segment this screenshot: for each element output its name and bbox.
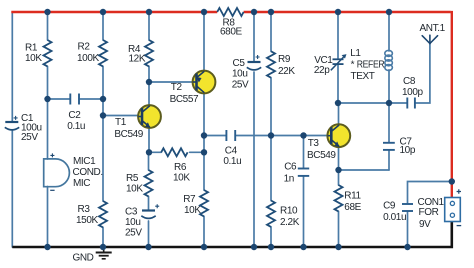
inductor L1 [385,50,393,70]
wire R5 bottom to C3 [148,196,150,210]
resistor R10 2.2K [267,201,275,227]
node C2 left [44,96,50,102]
svg-text:10u: 10u [232,69,248,80]
svg-text:0.1u: 0.1u [67,121,85,132]
node rail R9 [268,9,274,15]
capacitor C4 0.1u [226,130,235,141]
node gnd R11 [335,244,341,250]
svg-text:0.1u: 0.1u [223,156,241,167]
svg-text:25V: 25V [125,227,142,238]
svg-text:BC557: BC557 [170,94,199,105]
wire T3 emitter down to R11 [338,146,340,185]
capacitor C2 0.1u [70,94,79,105]
wire R4 bottom to T1 collector [148,66,150,106]
wire C6 bottom to ground [303,177,305,247]
svg-text:C6: C6 [284,162,297,173]
svg-text:BC549: BC549 [114,129,143,140]
wire R6 row right [190,151,204,153]
node R9 R10 [268,132,274,138]
node T1 base [100,112,106,118]
svg-text:BC549: BC549 [307,150,336,161]
node gnd R3 [100,244,106,250]
wire R9 column top [270,12,272,51]
wire R11 bottom to ground [338,211,340,247]
capacitor C8 100p [407,98,415,109]
node T2 base R4 [146,79,152,85]
wire VC1 bottom to tank node [337,65,339,103]
svg-text:MIC: MIC [73,178,90,189]
svg-text:C9: C9 [383,201,396,212]
wire VC1 column top [337,12,339,58]
resistor R11 68E [335,185,343,211]
wire T1 base row [103,115,139,117]
wire C5 column top [253,12,255,61]
resistor R3 150K [99,201,107,227]
svg-text:22K: 22K [278,66,295,77]
svg-text:R3: R3 [78,204,91,215]
svg-text:R11: R11 [344,191,361,202]
svg-text:*: * [351,59,355,70]
wire L1 bottom to tank node [388,70,390,103]
svg-text:C8: C8 [403,76,416,87]
node C4 T2 emitter [201,132,207,138]
transistor T1 BC549 NPN [138,105,161,128]
capacitor C6 1n [298,169,309,176]
node gnd C9 [404,244,410,250]
wire R10 bottom to ground [270,227,272,247]
wire C2 row left [48,98,70,100]
resistor R5 10K [145,170,153,196]
wire R3 bottom to ground [102,227,104,247]
node gnd R7 [201,244,207,250]
antenna ANT.1 [422,35,437,43]
svg-text:100K: 100K [77,53,99,64]
resistor R8 680E [217,8,243,16]
wire C7 column top [388,103,390,142]
wire R2 bottom through C2 node and T1 base node to R3 [102,66,104,201]
wire T2 collector from rail [203,12,205,72]
ground rail (black) [12,221,452,247]
capacitor C1 100u electrolytic [5,116,19,130]
transistor T3 BC549 NPN [327,124,350,147]
svg-text:GND: GND [72,253,93,264]
svg-text:T1: T1 [115,117,127,128]
resistor R2 100K [99,40,107,66]
node rail C5 [251,9,257,15]
wire R9 bottom through C4 node to R10 [270,78,272,201]
svg-text:10K: 10K [25,53,42,64]
svg-text:R7: R7 [183,194,196,205]
svg-text:C3: C3 [125,207,138,218]
node gnd R10 [268,244,274,250]
svg-text:2.2K: 2.2K [280,217,300,228]
svg-text:COND.: COND. [73,167,103,178]
wire R4 column top [148,12,150,40]
svg-text:R6: R6 [174,162,187,173]
wire T1 emitter to R6 node [148,127,150,152]
wire C5 bottom to ground [253,72,255,247]
mic minus sign [50,189,54,191]
svg-text:ANT.1: ANT.1 [420,23,446,34]
variable capacitor VC1 22p [331,54,346,70]
wire C7 bottom to emitter row [388,151,390,170]
svg-text:T2: T2 [171,82,183,93]
svg-text:68E: 68E [344,202,361,213]
wire C4 row right to T3 base [236,135,328,137]
mic plus sign [50,153,54,157]
node rail VC1 [335,9,341,15]
wire left border column (C1 column) top [11,12,13,121]
wire left border column (C1 column) bottom [11,131,13,247]
capacitor C3 10u electrolytic [141,204,159,218]
node tank VC1 [335,100,341,106]
svg-text:680E: 680E [220,27,242,38]
node battery plus [449,178,455,184]
node T1 emitter R6 [146,149,152,155]
node rail R4 [146,9,152,15]
resistor R7 10K [200,190,208,216]
svg-text:R1: R1 [25,43,38,54]
wire R1 bottom to C2 node [47,66,49,99]
svg-text:R2: R2 [78,42,91,53]
svg-text:22p: 22p [314,65,330,76]
svg-text:100p: 100p [402,87,423,98]
node gnd C3 [145,244,151,250]
wire T3 emitter row [339,169,390,171]
node gnd C5 [251,244,257,250]
svg-text:REFER: REFER [357,59,385,70]
wire tank row L1 to C8 [389,102,406,104]
capacitor C7 10p [383,143,395,150]
node rail R2 [100,9,106,15]
transistor T2 BC557 PNP [193,71,216,94]
svg-text:10K: 10K [126,184,143,195]
svg-text:1n: 1n [284,174,294,185]
svg-text:R10: R10 [280,206,298,217]
svg-text:R9: R9 [278,54,291,65]
wire R6 node down to R5 [148,152,150,170]
svg-text:10K: 10K [173,173,190,184]
svg-text:C2: C2 [68,110,81,121]
wire T2 emitter down through C4 node and R6 node to R7 [203,93,205,191]
wire tank node to T3 collector [338,103,340,125]
wire C8 to antenna [416,44,430,104]
svg-text:TEXT: TEXT [351,71,375,82]
svg-text:0.01u: 0.01u [383,212,406,223]
wire T2 base row [149,81,194,83]
wire R7 bottom to ground [203,216,205,247]
ground symbol GND [96,248,112,259]
node T3 emitter [335,167,341,173]
node C6 base [300,132,306,138]
wire R2 column top [102,12,104,40]
node gnd mic [44,244,50,250]
wire C9 top bend to CON1 plus node [408,182,452,204]
svg-text:L1: L1 [350,48,361,59]
svg-text:C4: C4 [225,146,238,157]
wire R6 row left [149,151,161,153]
svg-text:150K: 150K [76,215,98,226]
svg-text:12K: 12K [129,54,146,65]
wire C3 bottom to ground [148,221,150,247]
wire mic bottom to ground [47,187,49,248]
wire L1 column top [388,12,390,51]
node rail T2 [201,9,207,15]
svg-text:10K: 10K [184,205,201,216]
wire C2 row right [80,98,103,100]
capacitor C5 10u electrolytic [247,55,261,70]
svg-text:25V: 25V [21,132,38,143]
wire tank row VC1 to L1 [338,102,389,104]
resistor R6 10K [161,148,187,156]
microphone MIC1 condenser [44,159,70,187]
node R6 R7 [201,149,207,155]
svg-text:R5: R5 [126,173,139,184]
wire C4 row left [204,135,225,137]
node C2 right [100,96,106,102]
svg-text:9V: 9V [419,219,431,230]
svg-text:T3: T3 [308,138,320,149]
svg-text:10p: 10p [400,145,416,156]
connector CON1 [445,189,462,225]
power rail +9V (red) [11,11,452,198]
resistor R4 12K [145,40,153,66]
node tank L1 [386,100,392,106]
resistor R9 22K [267,51,275,77]
capacitor C9 0.01u [402,204,413,211]
svg-text:FOR: FOR [419,207,439,218]
resistor R1 10K [44,40,52,66]
svg-text:25V: 25V [232,80,249,91]
svg-text:MIC1: MIC1 [73,156,96,167]
wire mic top [47,99,49,159]
wire R1 column top [47,12,49,40]
node gnd C6 [300,244,306,250]
node rail L1 [386,9,392,15]
wire C6 column top [303,136,305,168]
node rail R1 [44,9,50,15]
wire C9 bottom to ground [407,212,409,247]
svg-text:C5: C5 [233,58,246,69]
